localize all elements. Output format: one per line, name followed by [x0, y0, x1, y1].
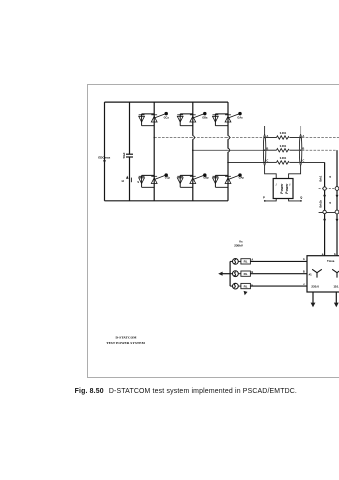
IGBT cell top leg1 (GCa) [139, 112, 168, 125]
breaker Brk2b contact [335, 210, 339, 214]
svg-text:GCa: GCa [164, 116, 170, 119]
voltmeter arrow [103, 160, 106, 163]
svg-text:A: A [303, 257, 305, 261]
converter leg 1 [153, 102, 155, 201]
bus bar 2 [299, 134, 301, 165]
phase A extension right [302, 137, 339, 139]
power meter block U1 [273, 179, 293, 199]
svg-text:GAp: GAp [239, 177, 245, 180]
breaker Brk1b contact [323, 210, 326, 213]
svg-text:B: B [251, 270, 253, 274]
converter leg 3 [227, 102, 229, 201]
phase B line from leg2 [193, 149, 265, 151]
capacitor C plates [126, 153, 133, 155]
phase A line from leg1 [154, 137, 264, 139]
capacitor branch wire [129, 102, 131, 154]
svg-text:110.0: 110.0 [333, 285, 339, 289]
svg-text:B: B [303, 270, 305, 274]
svg-text:Brk1b: Brk1b [318, 200, 322, 208]
IGBT cell bottom leg2 (GBp) [177, 174, 206, 188]
wire phase A to transformer [250, 260, 307, 262]
svg-text:GBp: GBp [203, 177, 209, 180]
bus bar 1 [263, 134, 265, 165]
svg-text:TEST POWER SYSTEM: TEST POWER SYSTEM [106, 341, 145, 345]
transformer T1 box [307, 256, 339, 292]
breaker Brk2 contact [335, 187, 339, 191]
wire: DC left rail [104, 102, 106, 201]
svg-text:230kV: 230kV [234, 244, 243, 248]
svg-text:0.001: 0.001 [280, 144, 287, 148]
winding 2 wye [332, 269, 339, 277]
ground below transformer 1 [312, 292, 314, 303]
svg-text:#1: #1 [309, 273, 313, 277]
svg-text:GCp: GCp [165, 177, 171, 180]
current arrow branch1 lower [323, 219, 326, 223]
resistor Rc 0.001 [266, 156, 300, 164]
breaker link dashed [319, 188, 339, 190]
breaker branch 1 wire [324, 162, 326, 255]
current arrow branch1 upper [323, 195, 326, 199]
winding 1 wye [312, 269, 322, 277]
svg-text:50uF: 50uF [123, 152, 126, 158]
phase C line from leg3 [228, 161, 265, 163]
wire: DC top bus [105, 101, 229, 103]
IGBT cell bottom leg1 (GCp) [139, 174, 168, 188]
IGBT cell top leg3 (GAa) [213, 112, 242, 125]
current arrow branch2 lower [336, 219, 339, 223]
wire phase B to transformer [250, 273, 307, 275]
converter leg 2 [192, 102, 194, 201]
svg-text:b: b [334, 252, 336, 256]
bus bar 1 stem [264, 126, 266, 135]
resistor Rb 0.001 [266, 144, 300, 152]
DC current arrow Id [130, 178, 132, 183]
wire phase C to transformer [250, 285, 307, 287]
svg-text:Power: Power [280, 183, 284, 194]
RL impedance B [238, 273, 241, 275]
svg-text:RL: RL [244, 272, 248, 276]
source Vc [230, 283, 238, 289]
phase C extension right to branch1 [302, 161, 325, 163]
IGBT cell top leg2 (GBa) [177, 112, 206, 125]
ground below transformer 2 [335, 292, 337, 303]
svg-text:GBa: GBa [202, 116, 208, 119]
RL impedance A [238, 260, 241, 262]
svg-text:Brk1: Brk1 [318, 175, 322, 181]
svg-text:RL: RL [244, 260, 248, 264]
ground arrow left [222, 273, 230, 275]
junction dots at bus bars [264, 137, 265, 138]
svg-text:P: P [263, 195, 265, 199]
Q output stub [289, 199, 301, 201]
wire bus2 to power meter [289, 166, 301, 179]
svg-text:Fig. 8.50 D-STATCOM test syste: Fig. 8.50 D-STATCOM test system implemen… [75, 388, 297, 395]
svg-text:0.001: 0.001 [280, 156, 287, 160]
svg-text:230.0: 230.0 [311, 285, 319, 289]
wire: DC bottom bus [105, 200, 229, 202]
resistor Ra 0.001 [266, 131, 300, 139]
breaker link 2 solid [319, 211, 339, 213]
svg-text:GAa: GAa [237, 116, 243, 119]
wire bus1 to power meter [265, 166, 277, 179]
svg-text:A: A [251, 258, 253, 262]
ground arrow below RL C [244, 291, 248, 295]
svg-text:Id: Id [122, 179, 125, 183]
svg-text:EDCmax: EDCmax [98, 156, 110, 160]
svg-text:D-STATCOM: D-STATCOM [115, 336, 137, 340]
figure frame [88, 85, 339, 378]
P output stub [265, 199, 276, 201]
wire hop leg3 over phase B [226, 149, 230, 152]
RL impedance C [238, 285, 241, 287]
svg-text:S: S [137, 180, 139, 184]
phase B extension right to branch2 [302, 149, 337, 151]
svg-text:0.001: 0.001 [280, 131, 287, 135]
svg-text:RL: RL [244, 284, 248, 288]
breaker Brk1 contact [323, 187, 326, 190]
IGBT cell bottom leg3 (GAp) [213, 174, 242, 188]
wire hop leg2 over phase A [191, 136, 195, 139]
source Vb [230, 271, 238, 277]
bus bar 2 stem [300, 126, 302, 135]
source Va [230, 259, 238, 265]
current arrow branch2 upper [336, 195, 339, 199]
breaker branch 2 wire [336, 150, 338, 256]
wire hop leg3 over phase A [226, 136, 230, 139]
source neutral wire [229, 261, 231, 286]
svg-text:Tmva: Tmva [327, 259, 335, 263]
